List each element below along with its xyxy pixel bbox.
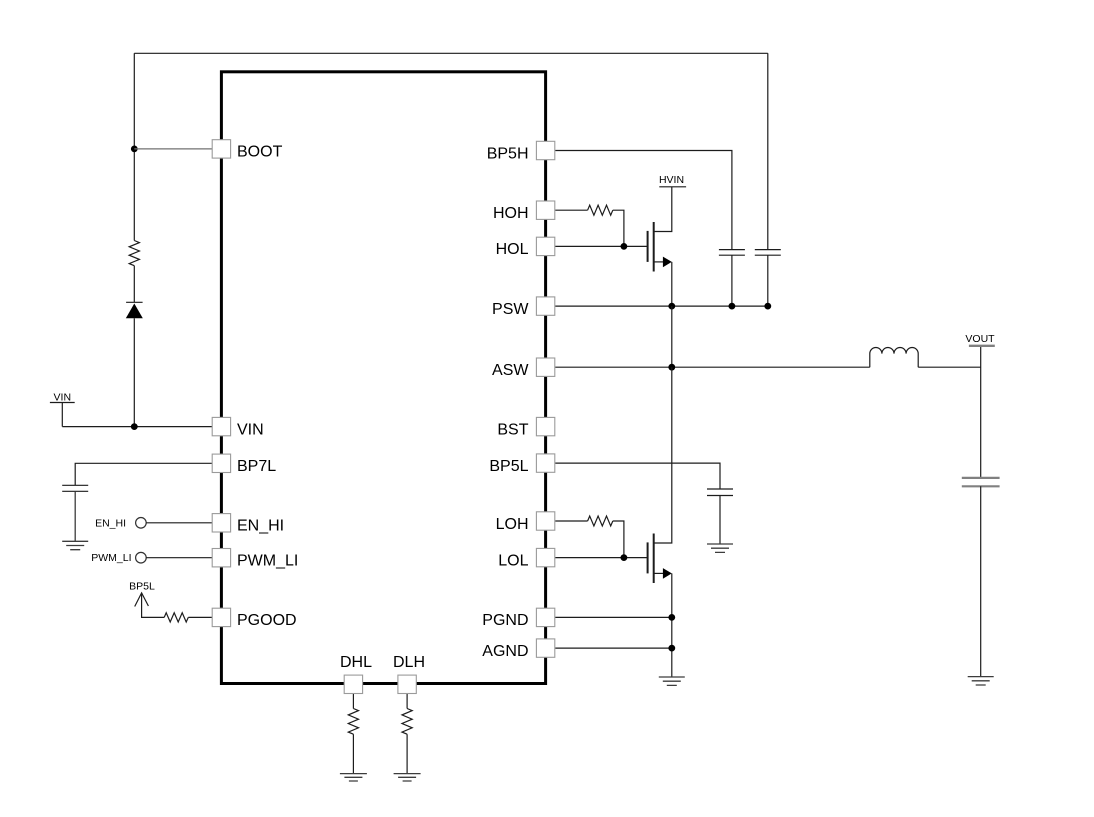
svg-text:BP7L: BP7L bbox=[237, 458, 276, 475]
transistor Q2 (low-side NMOS) bbox=[647, 542, 649, 573]
node BOOT junction bbox=[131, 146, 138, 153]
pin DLH bbox=[398, 675, 416, 693]
capacitor (BP7L) bbox=[62, 485, 88, 491]
wire VIN stub bbox=[134, 426, 212, 428]
pin HOH bbox=[536, 201, 554, 219]
wire diode to VIN node bbox=[133, 318, 135, 426]
ground (DHL) bbox=[340, 774, 367, 781]
wire VIN horizontal bbox=[62, 426, 134, 428]
capacitor C1 (top right) bbox=[719, 250, 745, 256]
pin PSW bbox=[536, 297, 554, 315]
svg-text:VOUT: VOUT bbox=[965, 333, 995, 345]
wire DLH resistor to ground bbox=[406, 734, 408, 773]
node VIN junction bbox=[131, 423, 138, 430]
terminal VOUT bbox=[969, 345, 995, 347]
ground (BP5L) bbox=[707, 544, 733, 552]
inductor L1 bbox=[870, 348, 918, 368]
pin LOL bbox=[536, 548, 554, 566]
node HOL gate junction bbox=[621, 243, 628, 250]
svg-text:BP5L: BP5L bbox=[129, 580, 155, 592]
wire HOH to gate junction bbox=[613, 210, 624, 246]
wire BP7L horizontal bbox=[75, 463, 212, 485]
svg-text:PWM_LI: PWM_LI bbox=[91, 552, 131, 564]
wire BOOT left vertical upper bbox=[133, 53, 135, 240]
svg-text:DHL: DHL bbox=[340, 654, 372, 671]
wire BP5L net bbox=[555, 463, 720, 489]
svg-text:BST: BST bbox=[497, 421, 528, 438]
wire PWM_LI stub bbox=[146, 557, 212, 559]
pin DHL bbox=[344, 675, 362, 693]
resistor (HOH) bbox=[588, 205, 613, 215]
pin LOH bbox=[536, 512, 554, 530]
wire LOH to gate junction bbox=[613, 521, 624, 558]
terminal PWM_LI circle bbox=[136, 552, 147, 563]
pin BP5H bbox=[536, 141, 554, 159]
pin BOOT bbox=[212, 140, 230, 158]
svg-text:HVIN: HVIN bbox=[659, 174, 684, 186]
pin ASW bbox=[536, 358, 554, 376]
wire HOH stub bbox=[555, 209, 587, 211]
svg-text:LOL: LOL bbox=[498, 552, 528, 569]
wire BOOT top net horizontal bbox=[134, 52, 768, 54]
svg-text:VIN: VIN bbox=[54, 392, 72, 404]
svg-text:BP5L: BP5L bbox=[489, 458, 528, 475]
wire BP5L cap to ground bbox=[719, 496, 721, 545]
ground (BP7L) bbox=[62, 541, 88, 549]
svg-text:PSW: PSW bbox=[492, 301, 529, 318]
svg-text:DLH: DLH bbox=[393, 654, 425, 671]
pin VIN bbox=[212, 417, 230, 435]
node C1 junction bbox=[729, 303, 736, 310]
wire PSW to ASW vertical bbox=[671, 306, 673, 367]
pin PGND bbox=[536, 608, 554, 626]
svg-text:PGOOD: PGOOD bbox=[237, 612, 297, 629]
svg-text:BOOT: BOOT bbox=[237, 144, 283, 161]
node C2 junction bbox=[764, 303, 771, 310]
pin AGND bbox=[536, 639, 554, 657]
wire Q2 source down bbox=[671, 573, 673, 677]
svg-text:ASW: ASW bbox=[492, 362, 529, 379]
terminal EN_HI circle bbox=[136, 518, 147, 529]
wire PSW net bbox=[555, 305, 768, 307]
pin PGOOD bbox=[212, 608, 230, 626]
pin BP5L bbox=[536, 454, 554, 472]
node PGND junction bbox=[668, 614, 675, 621]
wire BP5L arrow shaft bbox=[142, 593, 165, 618]
pin BP7L bbox=[212, 454, 230, 472]
wire C1 bottom bbox=[731, 255, 733, 306]
wire Q1 source down to PSW bbox=[671, 262, 673, 306]
wire C2 bottom bbox=[767, 255, 769, 306]
pin PWM_LI bbox=[212, 549, 230, 567]
pin HOL bbox=[536, 237, 554, 255]
wire LOL to gate bbox=[555, 557, 647, 559]
svg-text:HOH: HOH bbox=[493, 205, 529, 222]
wire DHL resistor to ground bbox=[352, 734, 354, 773]
wire PGND stub bbox=[555, 616, 672, 618]
wire DHL stub bbox=[352, 694, 354, 709]
resistor (PGOOD) bbox=[164, 613, 188, 622]
svg-text:PGND: PGND bbox=[482, 612, 528, 629]
wire ASW net left bbox=[555, 366, 870, 368]
svg-text:PWM_LI: PWM_LI bbox=[237, 553, 298, 570]
wire BP5H net bbox=[555, 151, 732, 250]
terminal HVIN bbox=[659, 186, 686, 188]
pin BST bbox=[536, 417, 554, 435]
wire EN_HI stub bbox=[146, 522, 212, 524]
terminal BP5L arrow bbox=[135, 593, 149, 607]
resistor (LOH) bbox=[588, 516, 613, 526]
IC U1 body bbox=[221, 72, 545, 684]
wire LOH stub bbox=[555, 520, 587, 522]
terminal VIN bbox=[50, 402, 75, 404]
wire BOOT stub bbox=[134, 148, 212, 150]
wire top net down right bbox=[767, 53, 769, 249]
wire HOL to gate bbox=[555, 245, 647, 247]
svg-text:BP5H: BP5H bbox=[487, 145, 529, 162]
node PSW junction bbox=[668, 303, 675, 310]
wire VOUT cap to ground bbox=[980, 486, 982, 676]
node ASW junction bbox=[668, 364, 675, 371]
wire ASW net right bbox=[918, 366, 981, 368]
pin EN_HI bbox=[212, 514, 230, 532]
resistor (BOOT-VIN) bbox=[129, 241, 139, 266]
resistor (DLH) bbox=[402, 709, 412, 735]
svg-text:LOH: LOH bbox=[496, 516, 529, 533]
capacitor (VOUT) gray bbox=[962, 478, 1000, 486]
svg-text:EN_HI: EN_HI bbox=[237, 518, 284, 535]
ground (DLH) bbox=[394, 774, 421, 781]
node AGND junction bbox=[668, 645, 675, 652]
svg-text:AGND: AGND bbox=[482, 643, 528, 660]
svg-text:EN_HI: EN_HI bbox=[95, 517, 126, 529]
wire AGND stub bbox=[555, 647, 672, 649]
wire DLH stub bbox=[406, 694, 408, 709]
node LOL gate junction bbox=[621, 554, 628, 561]
capacitor C2 (top right outer) bbox=[755, 250, 781, 256]
svg-text:HOL: HOL bbox=[496, 241, 529, 258]
wire BP7L cap to ground bbox=[74, 491, 76, 541]
wire resistor to diode bbox=[133, 266, 135, 303]
resistor (DHL) bbox=[348, 709, 358, 735]
diode (BOOT-VIN) bbox=[126, 301, 143, 303]
capacitor (BP5L) bbox=[707, 489, 733, 496]
ground (VOUT) bbox=[968, 677, 994, 685]
transistor Q1 (high-side NMOS) bbox=[647, 231, 649, 262]
svg-text:VIN: VIN bbox=[237, 421, 264, 438]
ground (PGND/AGND) bbox=[659, 677, 685, 685]
wire PGOOD stub bbox=[188, 616, 212, 618]
